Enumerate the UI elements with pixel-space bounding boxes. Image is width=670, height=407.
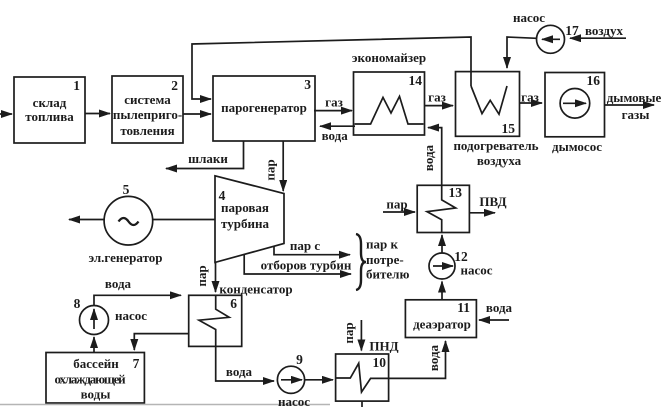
box10 zigzag xyxy=(336,363,389,392)
W air duct in box15 xyxy=(471,86,507,114)
wire gas box3 to box14 xyxy=(314,110,352,112)
wire hot air return: box15 top up, across top, down into box3 xyxy=(192,37,471,99)
box 7 бассейн xyxy=(46,353,144,404)
svg-text:газ: газ xyxy=(521,90,539,105)
fan circle in box16 xyxy=(560,89,590,119)
box 13 ПВД xyxy=(417,185,469,232)
svg-text:экономайзер: экономайзер xyxy=(352,50,426,65)
svg-text:деаэратор: деаэратор xyxy=(413,317,471,332)
wire extraction steam 1 xyxy=(274,246,350,255)
svg-text:воздуха: воздуха xyxy=(477,153,522,168)
svg-text:11: 11 xyxy=(457,300,470,315)
pump 17 circle xyxy=(537,25,565,53)
wire feed water box13 to economizer xyxy=(428,128,442,186)
svg-text:паровая: паровая xyxy=(221,200,269,215)
pump 12 arrow symbol xyxy=(433,265,453,267)
svg-text:турбина: турбина xyxy=(221,216,269,231)
svg-text:склад: склад xyxy=(33,95,67,110)
svg-text:воздух: воздух xyxy=(585,23,623,38)
wire flue gases out xyxy=(605,104,655,106)
fan arrow symbol xyxy=(563,102,586,104)
svg-text:ПНД: ПНД xyxy=(369,339,398,354)
wire basin to pump8 xyxy=(93,337,95,353)
svg-text:вода: вода xyxy=(421,144,436,171)
wire condenser return to basin xyxy=(134,334,188,350)
box 14 экономайзер xyxy=(354,72,425,135)
svg-text:ПВД: ПВД xyxy=(479,194,506,209)
wire box10 water to deaerator xyxy=(389,341,446,378)
wire pump8 to condenser xyxy=(94,295,181,305)
svg-text:14: 14 xyxy=(409,73,423,88)
wire turbine shaft to generator xyxy=(153,219,215,221)
svg-text:насос: насос xyxy=(513,10,545,25)
box 16 дымосос xyxy=(545,73,605,137)
svg-text:вода: вода xyxy=(486,300,513,315)
svg-text:2: 2 xyxy=(171,78,178,93)
svg-text:15: 15 xyxy=(502,121,516,136)
svg-text:16: 16 xyxy=(587,73,601,88)
svg-text:8: 8 xyxy=(74,296,81,311)
svg-text:7: 7 xyxy=(133,356,140,371)
wire extraction steam 2 xyxy=(244,254,351,274)
svg-text:газы: газы xyxy=(622,107,650,122)
svg-text:6: 6 xyxy=(230,296,237,311)
box 1 склад топлива xyxy=(14,77,85,143)
wire pump12 to box13 xyxy=(441,235,443,253)
svg-text:пар: пар xyxy=(386,197,407,212)
box 11 деаэратор xyxy=(405,300,476,338)
box 3 парогенератор xyxy=(213,76,315,141)
wire water box14 to box3 xyxy=(320,125,355,127)
pump 9 circle xyxy=(277,366,304,393)
svg-text:потре-: потре- xyxy=(366,252,404,267)
wire deaerator to pump12 xyxy=(441,282,443,300)
svg-text:вода: вода xyxy=(226,364,253,379)
pump 12 circle xyxy=(429,253,455,279)
svg-text:пар: пар xyxy=(194,265,209,286)
wire condensate out of condenser to pump9 xyxy=(216,346,274,381)
wire steam box3 to turbine xyxy=(282,141,284,191)
wire water into deaerator from right xyxy=(479,319,509,321)
wire stub below box10 xyxy=(361,401,363,407)
svg-text:3: 3 xyxy=(304,77,311,92)
svg-text:конденсатор: конденсатор xyxy=(219,282,292,297)
svg-text:газ: газ xyxy=(325,95,343,110)
wire water out of box13 right xyxy=(469,212,495,214)
heat exchanger M zigzag in box14 xyxy=(355,96,424,124)
svg-text:пылеприго-: пылеприго- xyxy=(113,107,182,122)
wire generator output arrow left xyxy=(69,219,104,221)
wire gas box14 to box15 xyxy=(425,105,454,107)
svg-text:вода: вода xyxy=(105,276,132,291)
svg-text:1: 1 xyxy=(73,78,80,93)
svg-text:газ: газ xyxy=(428,90,446,105)
svg-text:10: 10 xyxy=(373,355,387,370)
box 15 подогреватель воздуха xyxy=(456,72,520,137)
turbine 4 trapezoid xyxy=(215,176,284,263)
wire steam into box13 xyxy=(383,211,415,213)
pump 9 arrow symbol xyxy=(281,379,302,381)
condenser zigzag xyxy=(199,295,229,346)
svg-text:17: 17 xyxy=(565,23,579,38)
svg-text:13: 13 xyxy=(449,185,463,200)
svg-text:9: 9 xyxy=(296,352,303,367)
pump 8 circle xyxy=(80,306,109,335)
scan artifact line bottom xyxy=(0,404,330,406)
svg-text:воды: воды xyxy=(81,387,111,402)
generator 5 circle xyxy=(104,196,153,245)
svg-text:5: 5 xyxy=(123,182,130,197)
svg-text:эл.генератор: эл.генератор xyxy=(88,250,162,265)
svg-text:шлаки: шлаки xyxy=(188,151,228,166)
svg-text:бассейн: бассейн xyxy=(73,356,119,371)
wire slag out of box3 xyxy=(166,141,244,169)
svg-text:дымосос: дымосос xyxy=(552,139,602,154)
box 2 система пылеприготовления xyxy=(112,76,183,143)
wire pump9 to box10 xyxy=(305,379,333,381)
wire turbine exhaust steam to condenser xyxy=(215,262,217,292)
svg-text:вода: вода xyxy=(322,128,349,143)
svg-text:насос: насос xyxy=(460,263,492,278)
pump 8 arrow symbol xyxy=(93,309,95,329)
box 6 конденсатор xyxy=(189,295,242,346)
svg-text:охлаждающей: охлаждающей xyxy=(55,372,127,387)
svg-text:пар: пар xyxy=(263,159,278,180)
wire air from pump17 down into box15 xyxy=(507,37,537,68)
brace to consumer xyxy=(356,234,366,290)
svg-text:пар с: пар с xyxy=(290,238,320,253)
wire air in from right xyxy=(570,37,626,39)
svg-text:отборов турбин: отборов турбин xyxy=(261,258,352,273)
wire box2 to box3 xyxy=(183,113,211,115)
svg-text:дымовые: дымовые xyxy=(607,90,662,105)
svg-text:система: система xyxy=(124,92,171,107)
wire steam into box10 xyxy=(360,320,362,351)
svg-text:вода: вода xyxy=(426,344,441,371)
svg-text:парогенератор: парогенератор xyxy=(221,100,307,115)
svg-text:подогреватель: подогреватель xyxy=(453,138,538,153)
generator ~ symbol xyxy=(119,218,139,225)
wire box1 to box2 xyxy=(85,113,110,115)
wire gas box15 to box16 xyxy=(520,102,543,104)
svg-text:насос: насос xyxy=(278,394,310,407)
svg-text:бителю: бителю xyxy=(366,267,409,282)
svg-text:топлива: топлива xyxy=(25,109,74,124)
svg-text:пар к: пар к xyxy=(366,237,398,252)
box 10 ПНД xyxy=(336,354,389,401)
svg-text:товления: товления xyxy=(120,123,174,138)
svg-text:пар: пар xyxy=(341,322,356,343)
svg-text:насос: насос xyxy=(115,308,147,323)
box13 zigzag xyxy=(427,185,456,232)
pump 17 arrow symbol xyxy=(542,38,560,40)
wire input arrow into box 1 xyxy=(0,113,12,115)
